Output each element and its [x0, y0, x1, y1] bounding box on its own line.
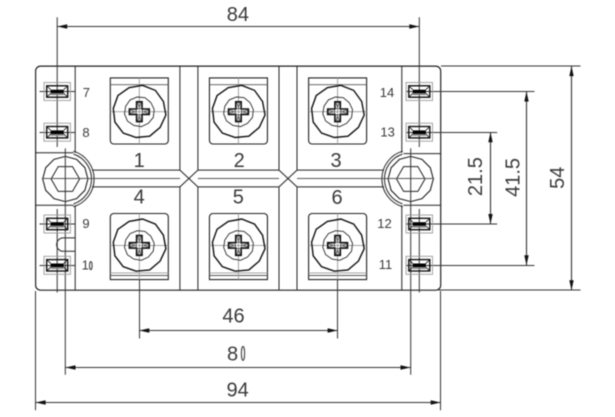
svg-text:41.5: 41.5: [503, 158, 525, 197]
screw 5: [212, 219, 265, 271]
left hole centerline / 80 extension: [64, 148, 66, 374]
label 3: [330, 150, 341, 172]
terminal 10: [44, 256, 70, 274]
right mounting hole collar arcs: [382, 151, 403, 207]
label 11: [379, 257, 393, 272]
terminal 8 line: [40, 132, 76, 134]
svg-text:4: 4: [134, 187, 145, 209]
X crossing right: [279, 170, 297, 187]
right column centerline top: [418, 17, 420, 147]
svg-text:5: 5: [233, 186, 244, 208]
dimension 21.5: [465, 132, 493, 224]
label 7: [83, 85, 90, 100]
svg-text:2: 2: [234, 150, 245, 172]
screw 6: [312, 219, 365, 271]
mid valley band lines: [92, 170, 384, 187]
terminal 8: [44, 123, 70, 141]
svg-text:84: 84: [227, 4, 249, 26]
label 14: [380, 85, 394, 100]
dimension 84: [57, 4, 419, 29]
svg-text:6: 6: [331, 187, 342, 209]
screw 2: [212, 85, 265, 137]
label 12: [377, 216, 391, 231]
X crossing left: [180, 170, 198, 187]
terminal 13: [406, 123, 432, 141]
screw 1: [113, 85, 166, 137]
svg-text:8: 8: [227, 343, 238, 365]
label 9: [82, 216, 89, 231]
terminal pad 2: [209, 78, 267, 144]
svg-text:1: 1: [82, 258, 89, 273]
cell wall between columns 2-3: [279, 66, 297, 290]
left column centerline bottom: [56, 209, 58, 293]
screw 3: [312, 85, 365, 137]
label 10: [82, 258, 92, 273]
dimension 94: [36, 291, 441, 410]
dimension 41.5: [503, 92, 529, 266]
left mounting hole collar arcs: [73, 151, 94, 207]
terminal 13 line / 21.5 extension: [406, 132, 497, 134]
terminal 14: [406, 83, 432, 101]
label 2: [234, 150, 245, 172]
label 8: [82, 125, 89, 140]
svg-text:21.5: 21.5: [465, 157, 487, 196]
left strip divider wall: [74, 66, 76, 290]
label 5: [233, 186, 244, 208]
right mounting hole: [388, 156, 433, 201]
terminal 7 line: [40, 91, 76, 93]
dimension 80: [66, 343, 411, 369]
left column centerline top: [56, 17, 58, 147]
left mounting boss lines: [36, 153, 74, 205]
right strip divider wall: [401, 66, 403, 290]
svg-text:54: 54: [547, 167, 569, 189]
terminal 9: [44, 215, 70, 233]
slot between terminals 9 and 10: [57, 238, 75, 251]
svg-text:7: 7: [83, 85, 90, 100]
dimension 46: [139, 280, 337, 339]
module body outline: [36, 66, 441, 290]
label 13: [380, 125, 394, 140]
terminal 14 line / 41.5 extension: [406, 91, 535, 93]
terminal 10 line: [40, 265, 76, 267]
terminal 9 line: [40, 223, 76, 225]
svg-text:11: 11: [379, 257, 393, 272]
left mounting hole: [43, 156, 88, 201]
svg-text:12: 12: [377, 216, 391, 231]
svg-text:9: 9: [82, 216, 89, 231]
screw 4: [113, 219, 166, 271]
right hole centerline / 80 extension: [410, 148, 412, 374]
terminal 12 line / 21.5 extension: [406, 223, 497, 225]
cell wall between columns 1-2: [180, 66, 198, 290]
terminal pad 5: [209, 214, 267, 280]
terminal pad 4: [110, 214, 168, 280]
center horizontal axis line: [42, 178, 434, 180]
svg-text:14: 14: [380, 85, 394, 100]
svg-text:3: 3: [330, 150, 341, 172]
svg-text:13: 13: [380, 125, 394, 140]
terminal 11 line / 41.5 extension: [406, 265, 535, 267]
dimension 54: [436, 66, 581, 290]
svg-text:8: 8: [82, 125, 89, 140]
terminal pad 6: [309, 214, 367, 280]
svg-text:1: 1: [134, 150, 145, 172]
svg-text:46: 46: [222, 305, 244, 327]
terminal 12: [406, 215, 432, 233]
terminal 11: [406, 256, 432, 274]
svg-text:94: 94: [226, 380, 248, 402]
label 1: [134, 150, 145, 172]
terminal 7: [44, 83, 70, 101]
label 4: [134, 187, 145, 209]
label 6: [331, 187, 342, 209]
terminal pad 1: [110, 78, 168, 144]
right column centerline bottom: [418, 209, 420, 293]
terminal pad 3: [309, 78, 367, 144]
right mounting boss lines: [404, 154, 441, 206]
